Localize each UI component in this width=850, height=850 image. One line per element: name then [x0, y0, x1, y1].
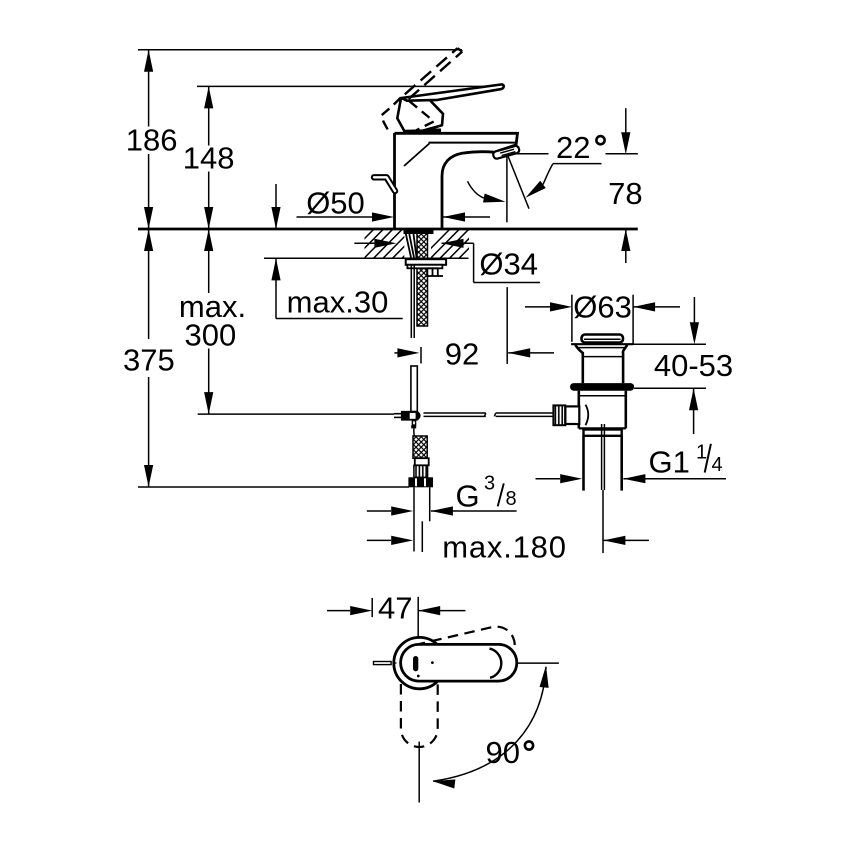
hose ferrule: [415, 458, 429, 465]
svg-text:92: 92: [445, 337, 479, 372]
label G 3/8: [367, 473, 517, 516]
top view handle dashed down: [401, 682, 438, 747]
dimension 148: [183, 86, 235, 229]
top view vertical centerline bottom: [418, 742, 420, 803]
rod guide stub: [427, 268, 443, 276]
top view escutcheon circle: [394, 637, 445, 688]
hex nut G 3/8: [408, 477, 433, 487]
svg-text:300: 300: [185, 318, 237, 353]
label 22 degrees: [523, 130, 605, 201]
G3/8 threaded end pipe: [414, 487, 430, 552]
top view pop-up rod: [374, 662, 397, 665]
label G 1 1/4: [536, 442, 727, 484]
dimension diameter 63: [525, 289, 680, 344]
drain knurled knob: [553, 405, 565, 425]
dimension 78: [608, 108, 642, 263]
dimension 40-53: [633, 297, 733, 434]
faucet body top cap: [395, 133, 518, 145]
spout face slant: [495, 144, 517, 151]
svg-text:G1: G1: [649, 445, 690, 480]
svg-text:22: 22: [556, 130, 590, 165]
threaded shank below deck: [417, 230, 428, 327]
svg-text:40-53: 40-53: [654, 348, 733, 383]
svg-text:78: 78: [608, 176, 642, 211]
dimension 90 degrees arc: [432, 665, 550, 788]
counter deck top line: [138, 228, 638, 231]
drain upper neck: [575, 345, 627, 383]
wire top reference line 186: [138, 49, 462, 51]
label diameter 34: [474, 243, 540, 282]
counter deck hatching right: [421, 229, 488, 258]
pop-up hook at body rear: [374, 177, 395, 191]
pop-up rod below flange: [411, 265, 414, 338]
svg-text:max.180: max.180: [442, 530, 567, 565]
handle base dashed raised outline: [381, 98, 434, 132]
aerator vertical reference line: [506, 155, 508, 222]
svg-text:Ø63: Ø63: [573, 289, 632, 324]
dimension 375: [123, 229, 175, 487]
wire bottom reference of max300: [198, 413, 394, 415]
svg-text:Ø34: Ø34: [479, 247, 538, 282]
handle base dark seat band: [404, 129, 441, 134]
faucet body left edge: [393, 133, 396, 229]
faucet body interior edge: [404, 144, 429, 167]
dimension 186: [126, 50, 178, 229]
dimension max30 horizontal arrows: [354, 239, 473, 248]
aerator: [492, 145, 519, 159]
dimension 92: [394, 337, 554, 372]
drain tailpipe: [584, 436, 622, 491]
svg-text:375: 375: [123, 342, 175, 377]
drain body: [579, 391, 626, 429]
svg-text:1: 1: [696, 442, 707, 464]
drain bottom step ring: [584, 430, 622, 436]
clamp wedge in deck hole: [405, 230, 417, 258]
pop-up horizontal rod: [424, 413, 554, 416]
handle base solid: [397, 97, 443, 131]
drain o-ring seal: [570, 383, 634, 391]
hose bend below tee: [413, 428, 416, 436]
top view handle dashed rotated: [397, 623, 518, 685]
basin surface line at drain: [571, 343, 633, 345]
svg-text:3: 3: [484, 473, 495, 495]
supply hose upper tube: [411, 366, 417, 412]
lever handle dashed raised: [405, 48, 462, 99]
wire reference line 148: [197, 85, 500, 87]
counter deck hatching left: [345, 229, 431, 258]
svg-text:90: 90: [486, 735, 520, 770]
braided hose section: [413, 436, 427, 458]
drain inner rod: [602, 424, 605, 553]
svg-text:G: G: [456, 479, 480, 514]
wire bottom reference of 375: [138, 486, 409, 488]
dimension max 300: [179, 229, 246, 414]
svg-text:8: 8: [506, 488, 517, 510]
angle indicator arc left: [468, 181, 507, 206]
dimension max30 vertical: [271, 184, 402, 320]
svg-text:186: 186: [126, 122, 178, 157]
top view handle inner details: [413, 656, 434, 677]
svg-text:max.30: max.30: [287, 285, 389, 320]
dimension 47: [327, 590, 466, 638]
spout outlet extension line below deck: [506, 287, 508, 364]
flange lower step: [407, 265, 442, 269]
svg-text:4: 4: [712, 454, 723, 476]
svg-text:148: 148: [183, 141, 235, 176]
top view handle inner cap line: [490, 649, 502, 678]
top view handle solid: [401, 644, 517, 681]
dimension max 180: [367, 530, 649, 565]
water stream 22 degree line: [508, 157, 529, 209]
dark shank top in deck hole: [404, 229, 434, 235]
svg-text:Ø50: Ø50: [306, 186, 365, 221]
faucet body front curve: [442, 152, 494, 229]
drain side port: [565, 405, 588, 426]
label diameter 50: [297, 186, 491, 222]
hose tee fitting: [394, 411, 421, 429]
lever handle solid: [402, 84, 504, 100]
aerator level reference line: [513, 153, 638, 155]
counter deck bottom line: [264, 257, 469, 259]
drain flange dome cap: [582, 335, 624, 345]
hose nut knurled: [414, 465, 428, 477]
mounting flange under deck: [406, 259, 446, 265]
top view centerline right: [517, 662, 559, 664]
svg-text:47: 47: [378, 590, 412, 625]
